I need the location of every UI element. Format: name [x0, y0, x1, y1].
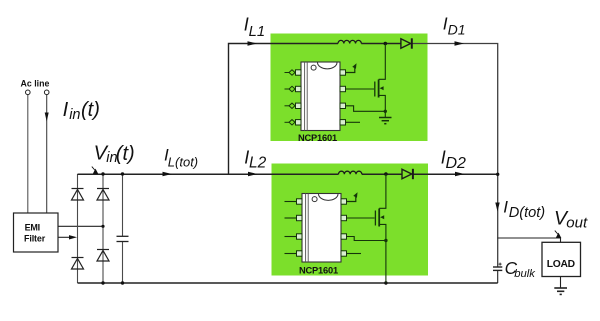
probe arrow: Vout: [555, 231, 561, 238]
U2 pin 8 with arrow symbol: [341, 191, 359, 204]
node: right leg mid junction: [101, 225, 104, 228]
node: pin6 source junction: [384, 110, 387, 113]
U1 pin 7 to MOSFET gate: [340, 86, 374, 91]
U2 pin 1: [285, 199, 303, 204]
arrow: ID2: [455, 172, 465, 177]
node: right leg bottom junction: [101, 281, 104, 284]
label Vout: [554, 207, 588, 231]
svg-text:L(tot): L(tot): [168, 155, 198, 170]
label IL2: [244, 147, 266, 171]
U2 pin 6 to source node: [341, 234, 386, 241]
wire: bridge right leg: [102, 174, 104, 283]
bridge diode top-left: [72, 189, 84, 201]
node: pin6 source junction stage 2: [384, 239, 387, 242]
svg-text:(t): (t): [116, 143, 135, 165]
svg-text:NCP1601: NCP1601: [299, 265, 338, 275]
svg-text:D2: D2: [446, 155, 467, 172]
capacitor Cbulk: [493, 267, 502, 270]
label IL(tot): [164, 146, 198, 170]
node: phase2 source to rail junction: [384, 281, 387, 284]
wire: bottom return rail: [78, 282, 498, 284]
svg-text:Ac line: Ac line: [21, 79, 50, 89]
transistor Q2 MOSFET: [375, 174, 386, 283]
wire: main rail after diode D2: [414, 173, 498, 175]
svg-text:bulk: bulk: [514, 268, 536, 280]
arrow: EMI to bridge: [69, 235, 77, 239]
PFC stage 2 highlight box: [272, 164, 429, 276]
wire: output to load: [498, 238, 561, 242]
U1 pin 3: [285, 103, 302, 108]
svg-text:NCP1601: NCP1601: [298, 133, 337, 143]
node: D2 anode junction: [384, 172, 388, 176]
probe arrow: Vin: [92, 167, 98, 174]
wire: main rectified rail: [78, 173, 339, 175]
wire: AC line right lead: [46, 95, 48, 213]
LOAD box: [542, 242, 581, 276]
svg-text:LOAD: LOAD: [547, 259, 575, 270]
arrow: Iin on AC lead: [45, 113, 49, 122]
terminal circle left: [26, 90, 31, 95]
svg-text:Filter: Filter: [24, 234, 46, 244]
wire: EMI to right bridge leg: [58, 225, 103, 227]
U1 pin 8 with arrow symbol: [340, 62, 358, 75]
U1 pin 6 to source node: [340, 103, 385, 111]
label IL1: [244, 15, 265, 40]
wire: AC line left lead: [27, 95, 29, 213]
U2 pin 2: [285, 215, 303, 220]
svg-text:L1: L1: [249, 24, 265, 40]
label Cbulk: [505, 258, 537, 280]
wire: upper phase after diode D1 to output bus: [413, 44, 498, 268]
svg-text:(t): (t): [81, 99, 100, 121]
label ID1: [443, 13, 466, 37]
arrow: ID1: [455, 41, 465, 46]
IC U2 NCP1601 body: [302, 194, 341, 263]
wire: load ground lead: [560, 277, 562, 288]
svg-text:I: I: [63, 99, 69, 121]
EMI filter box: [14, 213, 59, 252]
U1 pin 1: [285, 70, 302, 75]
inductor L2: [339, 171, 362, 174]
wire: riser to upper phase: [229, 44, 339, 175]
label ID(tot): [503, 198, 545, 222]
wire: filter cap branch: [122, 174, 124, 236]
transistor Q1 MOSFET: [375, 44, 386, 118]
wire: Cbulk lower lead: [497, 270, 499, 283]
node: D1 anode junction: [384, 42, 388, 46]
U1 pin 2: [285, 86, 302, 91]
terminal circle right: [44, 90, 49, 95]
node: right leg top junction: [101, 172, 104, 175]
node: D2 to bus junction: [496, 173, 499, 176]
diode D2: [402, 169, 413, 179]
svg-text:D(tot): D(tot): [509, 205, 545, 221]
Cbulk plus sign: [499, 263, 502, 266]
svg-text:D1: D1: [448, 21, 466, 37]
wire: EMI to left bridge leg: [58, 236, 70, 238]
label Vin(t): [94, 143, 135, 167]
U2 pin 3: [285, 234, 303, 239]
U2 pin 4: [285, 251, 303, 256]
svg-text:I: I: [503, 198, 508, 217]
diode D1: [401, 38, 412, 48]
bridge diode bottom-left: [72, 258, 84, 270]
IC U1 NCP1601 body: [301, 62, 340, 131]
U2 pin 5 stub: [341, 251, 361, 256]
U2 pin 7 to MOSFET gate: [341, 215, 375, 220]
wire: filter cap branch lower: [122, 242, 124, 284]
bridge diode bottom-right: [97, 250, 109, 262]
arrow: IL(tot): [163, 172, 173, 177]
svg-text:L2: L2: [249, 154, 267, 171]
svg-text:in: in: [69, 107, 80, 123]
ground under load: [554, 288, 567, 294]
inductor L1: [338, 40, 361, 43]
svg-text:out: out: [566, 215, 588, 232]
wire: rail inductor2 to diode2: [362, 173, 402, 175]
wire: inductor1 to diode1: [361, 43, 401, 45]
PFC stage 1 highlight box: [271, 34, 428, 142]
node: cap branch bottom junction: [121, 281, 124, 284]
arrow: IL2: [248, 172, 258, 177]
filter capacitor: [117, 236, 129, 241]
bridge diode top-right: [97, 189, 109, 201]
label ID2: [441, 147, 466, 172]
wire: bridge left leg: [77, 174, 79, 283]
svg-text:EMI: EMI: [25, 223, 40, 233]
arrow: ID(tot) down output bus: [495, 203, 499, 212]
node: cap branch top junction: [121, 172, 124, 175]
U1 pin 4: [285, 120, 302, 125]
U1 pin 5 stub: [340, 120, 360, 125]
arrow: IL1: [248, 41, 258, 46]
ground: stage 1: [379, 118, 392, 124]
label Iin(t): [63, 99, 100, 123]
